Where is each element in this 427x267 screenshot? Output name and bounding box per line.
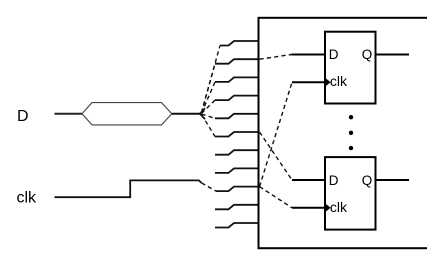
wire dashed tap9 to FF2 clk bbox=[260, 187, 293, 208]
tap stub 2 bbox=[215, 59, 260, 64]
flip-flop U1 bbox=[325, 32, 376, 104]
svg-text:clk: clk bbox=[330, 199, 348, 215]
wire fan ray to tap 6 bbox=[202, 115, 216, 137]
flip-flop U2 clock triangle bbox=[325, 203, 331, 212]
node fan point arrowhead bbox=[200, 108, 205, 119]
wire clk waveform bbox=[55, 180, 202, 197]
wire fan ray to tap 3 bbox=[202, 82, 216, 113]
wire FF1 Q output bbox=[376, 54, 410, 56]
wire clk dashed to tap bbox=[202, 183, 217, 191]
wire FF2 Q output bbox=[376, 179, 410, 181]
flip-flop U1 clock triangle bbox=[325, 78, 331, 87]
tap stub 7 bbox=[215, 150, 260, 155]
ellipsis dots bbox=[349, 115, 353, 119]
wire fan ray to tap 4 bbox=[202, 100, 216, 113]
wire fan ray to tap 5 bbox=[202, 114, 216, 118]
svg-text:D: D bbox=[17, 108, 29, 125]
tap stub 10 bbox=[215, 205, 260, 210]
svg-text:clk: clk bbox=[330, 73, 348, 89]
tap stub 5 bbox=[215, 114, 260, 119]
svg-text:Q: Q bbox=[362, 173, 373, 188]
tap stub 6 bbox=[215, 132, 260, 137]
wire FF2 D input bbox=[292, 179, 325, 181]
wire fan ray to tap 1 bbox=[202, 46, 221, 113]
chip outline rectangle bbox=[259, 18, 427, 248]
svg-text:D: D bbox=[329, 173, 339, 188]
wire dashed tap6 to FF2 D bbox=[260, 132, 293, 180]
wire dashed tap9 to FF1 clk bbox=[260, 82, 293, 186]
tap stub 9 clk bbox=[216, 187, 260, 192]
svg-text:clk: clk bbox=[17, 190, 38, 207]
wire FF2 clk input bbox=[292, 207, 325, 209]
wire dashed tap2 to FF1 D bbox=[260, 55, 292, 60]
wire D to fan point bbox=[172, 113, 200, 115]
wire D input bbox=[55, 113, 83, 115]
flip-flop U2 bbox=[325, 157, 376, 230]
tap stub 11 bbox=[215, 223, 260, 228]
data valid window (hexagon) bbox=[82, 103, 172, 125]
svg-text:Q: Q bbox=[362, 47, 373, 62]
tap stub 3 bbox=[215, 77, 260, 82]
wire fan ray to tap 2 bbox=[202, 64, 216, 113]
wire FF1 D input bbox=[292, 54, 326, 56]
svg-text:D: D bbox=[329, 47, 339, 62]
tap stub 1 bbox=[220, 41, 260, 46]
tap stub 4 bbox=[215, 96, 260, 101]
wire FF1 clk input bbox=[292, 81, 325, 83]
tap stub 8 bbox=[215, 168, 260, 173]
